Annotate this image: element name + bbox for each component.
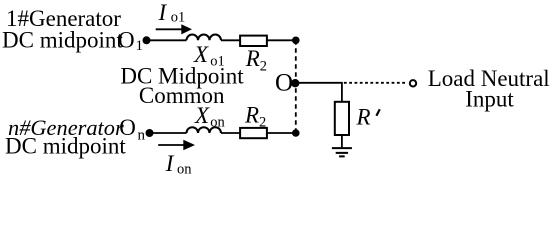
inductor Xon xyxy=(187,127,222,133)
dashed common wire xyxy=(295,40,297,133)
svg-text:Common: Common xyxy=(139,83,225,108)
svg-text:2: 2 xyxy=(259,115,266,131)
svg-text:n: n xyxy=(138,127,146,143)
current arrow Ion xyxy=(158,144,185,146)
svg-text:O: O xyxy=(275,70,293,97)
resistor R2 bottom xyxy=(240,128,267,138)
inductor Xo1 xyxy=(187,35,222,41)
svg-text:X: X xyxy=(193,42,209,67)
svg-text:2: 2 xyxy=(260,59,267,75)
svg-text:O: O xyxy=(118,27,135,52)
junction dot bottom right xyxy=(292,129,300,137)
current arrow Io1 xyxy=(156,28,183,30)
svg-text:Input: Input xyxy=(465,86,514,111)
wire from O to R' xyxy=(295,83,342,102)
svg-text:R: R xyxy=(244,102,259,127)
svg-text:o1: o1 xyxy=(210,53,225,69)
svg-text:on: on xyxy=(210,115,225,131)
prime mark xyxy=(376,109,379,116)
load terminal circle xyxy=(410,80,416,86)
ground xyxy=(332,148,352,156)
node O dot xyxy=(291,79,299,87)
dashed wire to load xyxy=(344,82,407,84)
resistor R' xyxy=(335,102,349,135)
svg-text:I: I xyxy=(158,0,168,25)
svg-text:I: I xyxy=(165,151,175,176)
svg-text:1: 1 xyxy=(136,38,144,54)
resistor R2 top xyxy=(240,36,267,46)
svg-text:O: O xyxy=(119,115,136,140)
svg-text:R: R xyxy=(245,46,260,71)
junction dot top right xyxy=(292,37,300,45)
svg-text:DC midpoint: DC midpoint xyxy=(2,27,123,52)
svg-text:o1: o1 xyxy=(171,10,186,26)
node dot On xyxy=(146,129,154,137)
svg-text:X: X xyxy=(194,103,210,128)
svg-text:DC midpoint: DC midpoint xyxy=(5,133,126,158)
wire to ground xyxy=(341,135,343,148)
node dot O1 xyxy=(143,36,151,44)
wire top rail xyxy=(147,39,296,41)
wire bottom rail xyxy=(150,132,296,134)
svg-text:on: on xyxy=(177,162,192,178)
svg-text:R: R xyxy=(356,105,371,130)
